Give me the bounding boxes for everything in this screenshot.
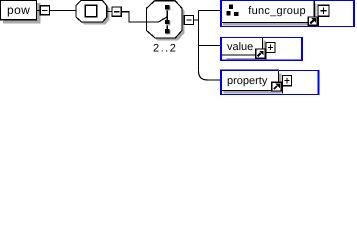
svg-text:2..2: 2..2 (153, 43, 177, 55)
svg-text:property: property (227, 75, 268, 87)
svg-text:value: value (227, 41, 253, 53)
svg-text:func_group: func_group (248, 5, 306, 17)
svg-text:pow: pow (7, 3, 30, 17)
